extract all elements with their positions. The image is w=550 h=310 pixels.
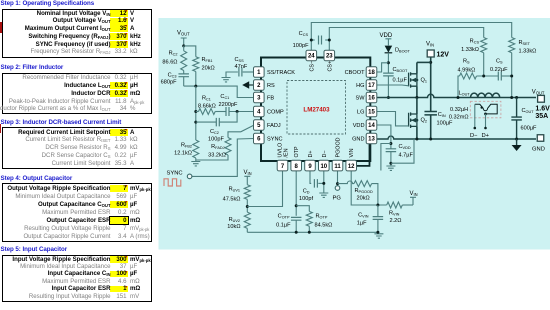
- U1 pin 15 (LG): [366, 106, 377, 117]
- svg-text:1.33kΩ: 1.33kΩ: [461, 47, 479, 53]
- terminal VIN square: [427, 50, 434, 57]
- wire FB node down to RFB2: [195, 86, 197, 140]
- IC U1 LM27403 body: [261, 58, 370, 162]
- svg-text:100µF: 100µF: [437, 121, 454, 127]
- capacitor CC3: [178, 74, 189, 77]
- wire FB to CC2: [196, 121, 217, 123]
- wire pin 5 FADJ to RFADJ: [228, 126, 253, 138]
- svg-text:600µF: 600µF: [521, 126, 538, 132]
- capacitor CC1: [226, 107, 229, 116]
- terminal D+ dot: [484, 127, 487, 130]
- wire Q2 source to GND rail: [416, 126, 418, 139]
- wire RSET down to VOUT rail: [511, 53, 513, 98]
- svg-text:CBOOT: CBOOT: [345, 70, 365, 76]
- capacitor CC2: [216, 118, 219, 127]
- wire CC2 to COMP node: [219, 112, 237, 123]
- wire to RC2: [183, 46, 185, 51]
- ground D-: [319, 193, 328, 197]
- junction RS drop on SW rail: [457, 96, 460, 99]
- wire UVLO node to pin 7: [247, 171, 282, 207]
- svg-text:0.32mΩ: 0.32mΩ: [449, 115, 469, 121]
- junction CD/D-: [322, 182, 325, 185]
- junction VOUT node: [182, 44, 185, 47]
- U1 pin 17 (HG): [366, 80, 377, 91]
- resistor RFADJ: [225, 138, 231, 156]
- svg-text:HG: HG: [356, 83, 364, 89]
- U1 exposed pad dashed box: [287, 81, 346, 135]
- diode DBOOT: [385, 46, 393, 53]
- wire pin 10 D- to ground: [323, 171, 325, 193]
- svg-text:FADJ: FADJ: [267, 123, 281, 129]
- resistor RPGOOD: [354, 181, 372, 187]
- capacitor CBOOT: [383, 73, 394, 76]
- U1 pin 9 (D+): [305, 160, 316, 171]
- svg-text:GND: GND: [532, 146, 545, 152]
- U1 pin 23 (CS+): [324, 50, 335, 61]
- resistor RCS: [481, 38, 487, 53]
- svg-text:0.22µF: 0.22µF: [490, 67, 508, 73]
- wire RFADJ to ground rail: [196, 155, 228, 160]
- svg-text:47.5kΩ: 47.5kΩ: [223, 196, 241, 202]
- svg-text:35A: 35A: [535, 113, 548, 120]
- junction COMP node: [236, 110, 239, 113]
- svg-text:20kΩ: 20kΩ: [357, 196, 370, 202]
- svg-text:SW: SW: [355, 96, 365, 102]
- resistor RUV1: [244, 185, 250, 200]
- U1 pin 1 (SS/TRACK): [254, 67, 265, 78]
- terminal VOUT square: [538, 95, 545, 102]
- wire CS- rail: pin 24 riser to RSET top: [311, 23, 511, 51]
- terminal PG circle: [335, 186, 340, 191]
- ground bottom rail: [374, 234, 383, 238]
- wire CCS right lead: [325, 39, 329, 41]
- U1 pin 12 (VIN): [346, 160, 357, 171]
- svg-text:PG: PG: [333, 196, 342, 202]
- wire SW to RS: [458, 76, 460, 98]
- wire FB rail to pin 3: [184, 86, 254, 97]
- junction CVIN node: [376, 204, 379, 207]
- U1 pin 3 (FB): [254, 92, 265, 103]
- wire CCS left lead: [311, 39, 314, 41]
- svg-text:2200pF: 2200pF: [219, 102, 239, 108]
- junction COUT top: [515, 96, 518, 99]
- junction sense node: [482, 75, 485, 78]
- junction OTP node: [295, 204, 298, 207]
- U1 pin 6 (SYNC): [254, 133, 265, 144]
- resistor RUV2: [244, 212, 250, 228]
- svg-text:VOUT: VOUT: [532, 89, 545, 95]
- wire Q1 drain to VIN: [417, 61, 431, 63]
- wire CS to RSET leg: [501, 75, 512, 77]
- svg-text:84.5kΩ: 84.5kΩ: [315, 223, 333, 229]
- wire CS+ rail: pin 23 riser to RCS top: [329, 28, 483, 51]
- svg-text:0.1µF: 0.1µF: [276, 223, 291, 229]
- wire node to CVIN: [377, 205, 379, 217]
- svg-text:1µF: 1µF: [357, 221, 367, 227]
- wire GND rail from pin 13 (hop over VDD wire): [377, 136, 536, 139]
- svg-text:17: 17: [368, 83, 375, 89]
- junction temp sensor emitter: [484, 113, 487, 116]
- ground RFB2: [191, 162, 200, 166]
- junction CCS right on pin23 riser: [328, 39, 331, 42]
- svg-text:18: 18: [368, 70, 375, 76]
- sync square wave icon: [164, 179, 181, 186]
- svg-text:10kΩ: 10kΩ: [227, 224, 240, 230]
- wire bottom ground rail: [247, 231, 379, 233]
- svg-text:0.32µH: 0.32µH: [450, 107, 468, 113]
- svg-text:100pf: 100pf: [299, 196, 313, 202]
- svg-text:VDD: VDD: [353, 123, 365, 129]
- svg-text:/EN: /EN: [284, 148, 290, 157]
- wire CIN to GND rail: [430, 115, 432, 139]
- wire D+ sense lead: [485, 114, 487, 128]
- wire COTP to rail: [295, 220, 297, 232]
- junction VIN/Q1 drain: [429, 61, 432, 64]
- svg-text:VDD: VDD: [380, 33, 393, 39]
- U1 pin 5 (FADJ): [254, 120, 265, 131]
- svg-text:8.66kΩ: 8.66kΩ: [198, 103, 216, 109]
- junction CS/RSET: [510, 75, 513, 78]
- svg-text:CS−: CS−: [309, 61, 315, 72]
- svg-text:1.33kΩ: 1.33kΩ: [519, 49, 537, 55]
- U1 pin 7 (UVLO/EN): [277, 160, 288, 171]
- wire RFB2 to ground: [195, 158, 197, 161]
- svg-text:4.99kΩ: 4.99kΩ: [458, 68, 476, 74]
- svg-text:UVLO: UVLO: [278, 143, 284, 158]
- svg-text:FB: FB: [267, 96, 274, 102]
- junction GND arrow node: [515, 138, 518, 141]
- junction COTP rail: [295, 231, 298, 234]
- transistor Q1: [409, 72, 417, 88]
- svg-text:GND: GND: [352, 137, 364, 143]
- resistor RFB1: [193, 57, 199, 72]
- wire RC2 to CC3: [183, 71, 185, 74]
- wire pin 13 GND to pin 12 area (thick): [351, 144, 369, 166]
- capacitor CVIN: [373, 217, 384, 220]
- arrow marker on pin 2 RS: [242, 81, 249, 89]
- wire CVDD bottom to GND rail: [391, 139, 414, 163]
- wire COUT to GND rail: [516, 120, 518, 139]
- svg-text:10: 10: [320, 164, 327, 170]
- wire Q1 drain up: [416, 62, 418, 73]
- capacitor CD: [314, 179, 317, 188]
- resistor RSET: [509, 38, 515, 53]
- junction UVLO node: [246, 205, 249, 208]
- capacitor CIN: [424, 112, 437, 115]
- svg-text:SYNC: SYNC: [267, 137, 283, 143]
- svg-text:COMP: COMP: [267, 110, 284, 116]
- svg-text:100pF: 100pF: [293, 43, 309, 49]
- wire pin 8 OTP down to COTP: [295, 171, 297, 216]
- wire CSS to pin 1: [243, 71, 254, 73]
- wire RC1 to CC1: [215, 111, 226, 113]
- svg-text:VIN: VIN: [349, 148, 355, 157]
- wire pin 17 HG to Q1 gate: [377, 84, 409, 87]
- wire CBOOT to SW rail: [387, 76, 389, 98]
- wire RPGOOD to VIN node: [372, 184, 378, 205]
- wire DBOOT to CBOOT node: [387, 53, 389, 73]
- svg-text:VIN: VIN: [426, 42, 434, 48]
- wire pin 6 SYNC to SYNC terminal: [192, 139, 254, 177]
- ground CVDD: [386, 166, 395, 170]
- resistor RC1: [199, 109, 216, 115]
- transistor Q2: [409, 112, 417, 128]
- wire CC1 to pin 4 COMP: [229, 111, 254, 113]
- wire pin 18 CBOOT: [377, 63, 389, 72]
- svg-text:47nF: 47nF: [235, 64, 248, 70]
- svg-text:VIN: VIN: [410, 191, 418, 197]
- U1 pin 14 (VDD): [366, 120, 377, 131]
- wire CVDD node stub left-down: [381, 144, 391, 171]
- resistor RC2: [181, 51, 187, 71]
- svg-text:RS: RS: [267, 83, 275, 89]
- wire COUT top lead: [516, 98, 518, 118]
- junction CS drop on VOUT rail: [510, 96, 513, 99]
- left edge red bar: [0, 22, 2, 33]
- svg-text:LM27403: LM27403: [303, 107, 330, 114]
- wire RS to CS: [477, 75, 499, 77]
- junction PGOOD/RPGOOD: [336, 182, 339, 185]
- junction CVDD bottom: [389, 162, 392, 165]
- svg-text:15: 15: [368, 110, 375, 116]
- junction CIN on GND rail: [429, 138, 432, 141]
- svg-text:24: 24: [308, 54, 315, 60]
- junction FB node: [194, 85, 197, 88]
- temp sensor transistor symbol: [475, 104, 497, 114]
- svg-text:86.6Ω: 86.6Ω: [162, 60, 177, 66]
- wire Q1 source to SW: [416, 86, 418, 97]
- svg-text:12.1kΩ: 12.1kΩ: [174, 151, 192, 157]
- wire CVDD to ground: [390, 152, 392, 166]
- svg-text:D−: D−: [470, 133, 478, 139]
- capacitor COUT: [511, 117, 521, 120]
- U1 pin 18 (CBOOT): [366, 67, 377, 78]
- schematic cyan background: [159, 18, 550, 250]
- wire ROTP to rail: [308, 226, 310, 232]
- svg-text:SYNC: SYNC: [167, 171, 183, 177]
- wire pin 12 VIN down to RVIN: [351, 171, 387, 205]
- junction CVDD node: [389, 142, 392, 145]
- svg-text:33.2kΩ: 33.2kΩ: [208, 153, 226, 159]
- svg-text:SS/TRACK: SS/TRACK: [267, 70, 295, 76]
- wire D- sense lead: [474, 104, 476, 127]
- svg-text:4.7µF: 4.7µF: [399, 153, 414, 159]
- junction Q2 source on GND rail: [415, 138, 418, 141]
- resistor RFB2: [193, 140, 199, 158]
- U1 pin 13 (GND): [366, 133, 377, 144]
- svg-text:1.6V: 1.6V: [535, 105, 550, 112]
- ground arrow (power ground): [516, 139, 518, 145]
- wire pin 15 LG to Q2 gate: [377, 112, 409, 126]
- wire CC3 to FB rail: [183, 77, 185, 86]
- wire pin 9 D+ to CD: [310, 171, 311, 183]
- wire RUV1 to RUV2: [246, 199, 248, 212]
- svg-text:20kΩ: 20kΩ: [202, 66, 215, 72]
- wire VOUT to RFB1: [184, 46, 196, 57]
- terminal SYNC circle: [187, 174, 192, 179]
- wire pin 11 PGOOD down: [337, 171, 339, 186]
- junction CVIN rail: [376, 231, 379, 234]
- wire SW rail from pin 16 to inductor (hop over VIN): [377, 94, 536, 97]
- resistor RVIN: [387, 202, 403, 208]
- junction FB/CC2: [194, 121, 197, 124]
- svg-text:D−: D−: [322, 150, 328, 157]
- wire RFB1 to FB rail: [195, 72, 197, 87]
- junction temp sensor base: [481, 106, 483, 108]
- svg-text:OTP: OTP: [294, 146, 300, 157]
- svg-text:11: 11: [334, 164, 341, 170]
- U1 pin 16 (SW): [366, 92, 377, 103]
- junction FB/RC1: [194, 110, 197, 113]
- svg-text:CS+: CS+: [327, 61, 333, 72]
- U1 pin 2 (RS): [254, 80, 265, 91]
- U1 pin 11 (PGOOD): [332, 160, 343, 171]
- wire CVIN to rail: [377, 219, 379, 232]
- svg-text:16: 16: [368, 96, 375, 102]
- temp sensor QT dashed box: [470, 101, 501, 118]
- svg-text:VOUT: VOUT: [177, 31, 190, 37]
- svg-text:680pF: 680pF: [161, 80, 177, 86]
- capacitor CS: [498, 72, 501, 81]
- capacitor CSS: [239, 68, 242, 77]
- svg-text:2.2Ω: 2.2Ω: [390, 218, 402, 224]
- terminal D- dot: [474, 127, 477, 130]
- wire RUV2 to bottom rail: [246, 228, 248, 232]
- wire VOUT stub: [181, 38, 187, 46]
- capacitor COTP: [291, 217, 302, 220]
- svg-text:VIN: VIN: [244, 170, 252, 176]
- resistor ROTP: [306, 211, 312, 226]
- wire to RC1: [196, 111, 199, 113]
- wire RVIN to VIN stub: [402, 204, 413, 206]
- wire VDD stub: [385, 39, 391, 46]
- svg-text:PGOOD: PGOOD: [336, 137, 342, 157]
- svg-text:D+: D+: [308, 150, 314, 157]
- inductor LOUT: [471, 93, 500, 97]
- wire CSS to ground: [226, 72, 238, 77]
- svg-text:0.1µF: 0.1µF: [393, 78, 408, 84]
- capacitor CCS: [319, 36, 322, 45]
- svg-text:13: 13: [368, 137, 375, 143]
- U1 pin 10 (D&#8722;): [319, 160, 330, 171]
- wire RCS to sense node: [483, 53, 485, 76]
- junction CBOOT node: [387, 61, 390, 64]
- terminal GND square: [537, 135, 544, 142]
- wire pin 14 VDD to CVDD: [377, 125, 391, 149]
- junction Q1 source/Q2 drain on SW rail: [415, 96, 418, 99]
- wire Q2 drain to SW rail: [416, 98, 418, 115]
- svg-text:12V: 12V: [437, 52, 450, 59]
- svg-text:LG: LG: [357, 110, 364, 116]
- U1 pin 24 (CS&#8722;): [306, 50, 317, 61]
- resistor RS: [460, 73, 477, 79]
- svg-text:12: 12: [348, 164, 355, 170]
- U1 pin 8 (OTP): [291, 160, 302, 171]
- wire OTP to ROTP: [296, 206, 309, 212]
- U1 pin 4 (COMP): [254, 106, 265, 117]
- svg-text:23: 23: [326, 54, 333, 60]
- wire VIN stub to RUV1: [244, 176, 250, 184]
- capacitor CVDD: [386, 149, 397, 152]
- wire RPGOOD lead with hop over VIN wire: [338, 181, 355, 184]
- junction CCS left on pin24 riser: [310, 39, 313, 42]
- junction CBOOT/SW: [387, 96, 390, 99]
- wire CD to pin 10 line: [318, 182, 324, 184]
- wire VIN vertical: [430, 57, 432, 112]
- net VIN stub (right): [410, 197, 416, 205]
- junction ROTP rail: [308, 231, 311, 234]
- svg-text:D+: D+: [482, 133, 490, 139]
- svg-text:14: 14: [368, 123, 375, 129]
- svg-text:100pF: 100pF: [208, 137, 224, 143]
- ground CSS: [222, 78, 231, 82]
